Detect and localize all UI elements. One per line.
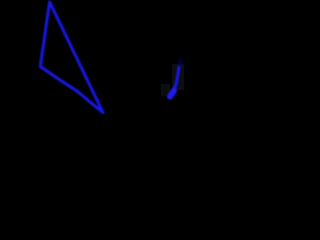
jpeg artifact patch left of arrow foot — [161, 84, 170, 96]
triangle outline — [40, 2, 103, 113]
jpeg artifact patch right of arrow — [172, 64, 184, 90]
arrow stroke top (dim) — [179, 60, 181, 69]
arrow stroke main — [174, 68, 179, 91]
arrow foot (thick) — [170, 91, 174, 97]
